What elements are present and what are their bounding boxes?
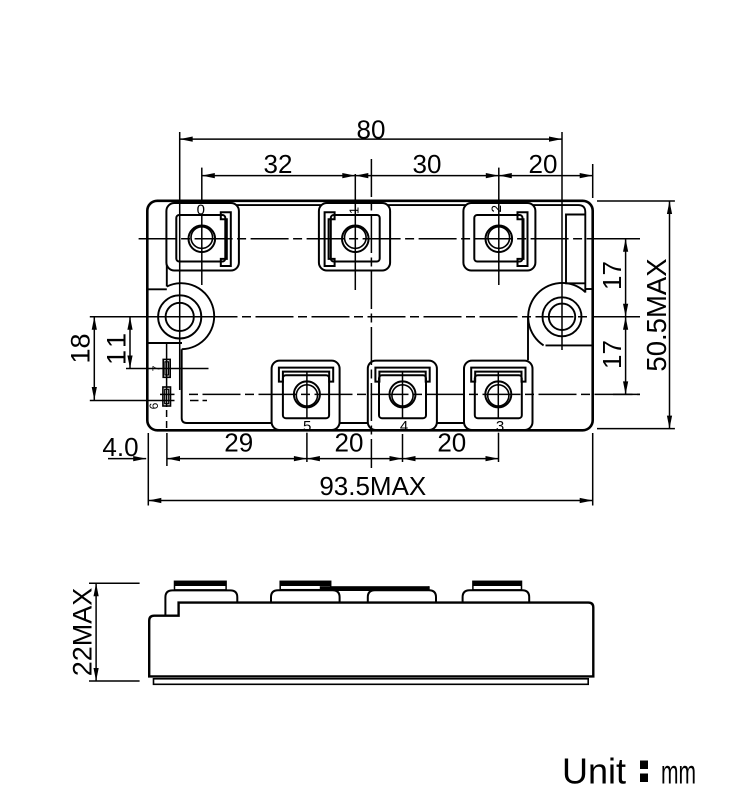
terminal 5 center line [306, 372, 308, 418]
side plate 1 [175, 581, 227, 590]
pin 7 [163, 359, 170, 377]
center chain line main [242, 316, 640, 318]
unit note [562, 750, 696, 791]
terminal 0 [166, 203, 239, 271]
svg-text:4: 4 [400, 418, 408, 435]
svg-text:7: 7 [150, 365, 162, 371]
terminal 4 center line [402, 372, 404, 418]
bottom extension ticks [147, 433, 149, 506]
center chain line row B [189, 393, 640, 395]
dimension 18 [66, 317, 97, 400]
svg-text:5: 5 [303, 418, 311, 435]
ledge tick right [585, 288, 592, 290]
svg-text:80: 80 [357, 115, 386, 145]
ledge tick left [147, 288, 167, 290]
mounting hole left [158, 295, 201, 338]
hole extension right [561, 132, 563, 350]
svg-text:6: 6 [147, 402, 161, 409]
boss shelf tick left [147, 342, 182, 344]
dimension 80 [180, 115, 562, 145]
svg-text:1: 1 [347, 207, 362, 214]
terminal 3 [464, 361, 533, 430]
terminal 3 center line [497, 372, 499, 418]
pin6 extension dashes [190, 400, 207, 402]
dimension 17 upper [597, 239, 628, 317]
svg-text:Unit: Unit [562, 750, 626, 791]
side plate bar B [320, 586, 429, 591]
svg-text:17: 17 [597, 261, 627, 290]
side plate bar A [280, 581, 331, 589]
pin center chain dashes [166, 410, 168, 430]
side bump 2 [271, 590, 340, 602]
dimension 11 [102, 317, 133, 369]
svg-text:0: 0 [197, 201, 205, 218]
baseplate [154, 679, 589, 685]
center chain line row A [139, 238, 640, 240]
inner ledge contour top [167, 205, 586, 293]
hole extension left [179, 132, 181, 390]
dimension 32 [202, 149, 355, 204]
side bump 4 [463, 590, 530, 602]
center chain line main solid lead [90, 316, 238, 318]
terminal 1 center line [354, 200, 356, 290]
svg-text:2: 2 [489, 205, 504, 213]
body outline [147, 201, 592, 430]
dimension 50.5MAX [597, 201, 675, 429]
svg-text:50.5MAX: 50.5MAX [641, 258, 672, 371]
terminal 2 center line [498, 200, 500, 285]
svg-text:18: 18 [66, 333, 96, 363]
boss arc right [528, 283, 585, 345]
pin 6 [163, 387, 171, 406]
dimension 29 [167, 428, 307, 462]
svg-text:3: 3 [496, 418, 504, 435]
dimension 20 top [499, 149, 593, 200]
svg-text:20: 20 [529, 149, 558, 179]
INNER CONTOURS GROUP (drawn before terminal boxes) [147, 205, 592, 423]
side bump 1 [165, 590, 237, 615]
svg-text:93.5MAX: 93.5MAX [319, 471, 426, 501]
extension segment row A right [613, 238, 640, 240]
center chain line row B solid lead [160, 393, 175, 395]
side plate 4 [473, 581, 522, 590]
dimension 22MAX [68, 583, 140, 681]
svg-text:29: 29 [224, 428, 253, 458]
side bump 3 [368, 590, 436, 602]
dimension 93.5MAX [148, 471, 592, 503]
side case outline [149, 603, 593, 677]
svg-text:4.0: 4.0 [102, 432, 138, 462]
svg-text:17: 17 [597, 340, 627, 369]
extension segment row B right [613, 393, 640, 395]
extension segment center right [613, 316, 640, 318]
terminal 4 [368, 361, 437, 430]
dimension 20 bottom left [307, 428, 403, 462]
svg-text:20: 20 [335, 428, 364, 458]
notch rectangle right [566, 215, 585, 284]
dimension 4.0 [102, 432, 146, 462]
dimension 20 bottom right [403, 428, 499, 462]
terminal 0 center line [201, 216, 203, 286]
svg-text:22MAX: 22MAX [68, 588, 98, 677]
dimension 17 lower [597, 317, 628, 395]
terminal 5 [272, 361, 340, 430]
terminal 2 [463, 203, 535, 271]
terminal 1 [319, 203, 390, 271]
vertical center chain [370, 159, 372, 468]
inner contour bottom [182, 349, 533, 423]
svg-text:11: 11 [102, 329, 132, 365]
pin7 extension line [126, 368, 209, 370]
pin center chain solid [166, 342, 168, 407]
svg-text:32: 32 [264, 149, 293, 179]
boss arc left [167, 283, 214, 349]
pin6 extension line [90, 400, 175, 402]
boss tangent line right [527, 317, 529, 360]
svg-text:30: 30 [413, 149, 442, 179]
boss shelf line right [546, 344, 593, 346]
mounting hole right [543, 297, 582, 336]
dimension 30 [355, 149, 499, 200]
svg-text:20: 20 [437, 428, 466, 458]
svg-text:mm: mm [661, 753, 696, 790]
